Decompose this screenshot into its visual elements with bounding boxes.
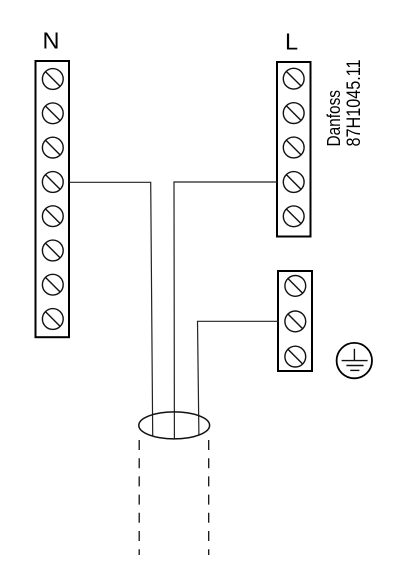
wire L to cable (174, 182, 278, 439)
terminal N-3 screw (42, 137, 63, 158)
terminal PE-3 screw (285, 346, 306, 367)
svg-text:N: N (43, 28, 60, 54)
protective earth symbol (337, 343, 372, 378)
terminal N-7 screw (42, 274, 63, 295)
terminal L-5 screw (283, 206, 304, 227)
terminal L-3 screw (283, 137, 304, 158)
terminal N-8 screw (42, 309, 63, 330)
terminal L-1 screw (283, 68, 304, 89)
terminal block L body (277, 62, 311, 237)
terminal block N body (36, 61, 70, 337)
svg-text:L: L (285, 28, 298, 54)
terminal PE-2 screw (285, 311, 306, 332)
terminal PE-1 screw (285, 276, 306, 297)
wire PE to cable (198, 321, 279, 434)
terminal N-4 screw (42, 172, 63, 193)
cable outline dashed left (138, 440, 140, 555)
cable outline dashed right (208, 440, 210, 555)
terminal N-2 screw (42, 103, 63, 124)
terminal N-1 screw (42, 69, 63, 90)
terminal L-4 screw (283, 172, 304, 193)
terminal L-2 screw (283, 103, 304, 124)
svg-text:Danfoss: Danfoss (324, 90, 344, 147)
cable entry ellipse (139, 412, 210, 439)
terminal block PE body (3-pole) (278, 271, 312, 371)
terminal N-6 screw (42, 240, 63, 261)
svg-text:87H1045.11: 87H1045.11 (343, 60, 365, 147)
terminal N-5 screw (42, 206, 63, 227)
wire N to cable (69, 182, 153, 436)
